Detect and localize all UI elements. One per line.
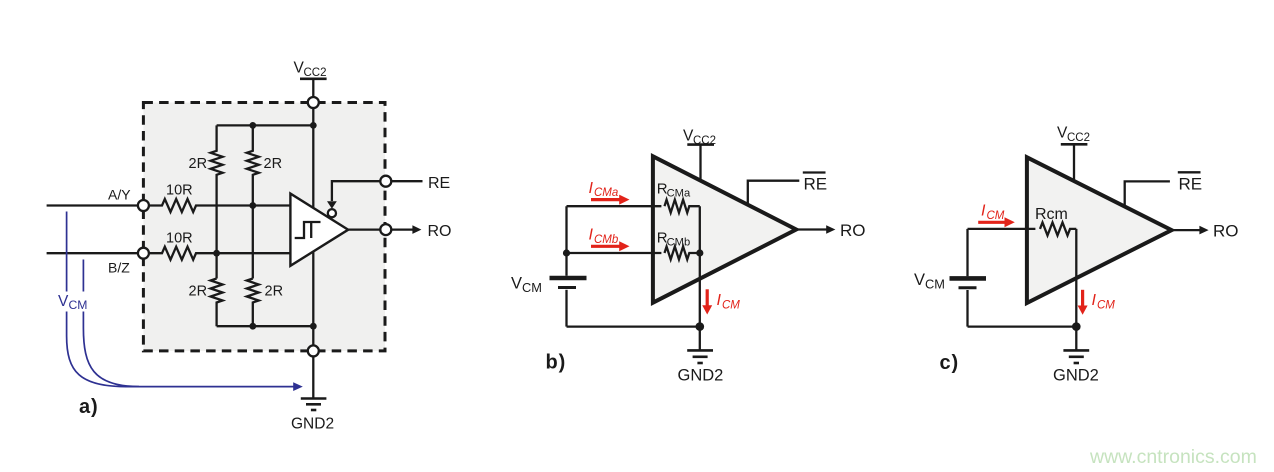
current arrow ICM down (c) <box>1081 290 1084 306</box>
label VCM (b) <box>511 275 542 296</box>
junction dot bottom rail / supply line (a) <box>310 323 317 330</box>
svg-text:CM: CM <box>69 298 88 312</box>
junction dot left divider / B-Z wire (a) <box>213 250 220 257</box>
svg-text:2R: 2R <box>189 156 208 172</box>
svg-text:V: V <box>511 275 522 293</box>
resistor RCMa (b) <box>665 200 700 213</box>
svg-text:CMa: CMa <box>594 187 618 199</box>
label ICM input (c) <box>981 203 1005 223</box>
svg-text:RO: RO <box>1213 221 1239 240</box>
wire common vertical inside comparator (c) <box>1075 229 1077 327</box>
white backing for VCM label (a) <box>56 292 96 312</box>
svg-text:Rcm: Rcm <box>1035 206 1068 223</box>
wire RE stub right of pin (a) <box>391 180 422 182</box>
VCC2 supply bar (b) <box>687 143 714 146</box>
svg-text:V: V <box>914 271 925 289</box>
junction dot left vertical / lower input (b) <box>563 249 570 256</box>
svg-text:A/Y: A/Y <box>108 187 131 203</box>
svg-text:10R: 10R <box>166 231 193 247</box>
pin circle VCC2 on box (a) <box>308 97 319 108</box>
current arrow ICMa (b) <box>591 198 620 201</box>
wire battery to bottom rail (b) <box>565 290 567 327</box>
svg-text:GND2: GND2 <box>291 416 334 433</box>
junction dot top rail / right divider (a) <box>249 122 256 129</box>
label ICMa (b) <box>589 180 619 199</box>
svg-text:CMb: CMb <box>594 234 619 246</box>
dashed IC boundary box (a) <box>143 103 385 351</box>
battery VCM plate long (b) <box>550 276 587 281</box>
resistor 2R lower-left (a) <box>211 279 223 327</box>
wire common vertical inside comparator (b) <box>699 206 701 326</box>
junction dot bottom rail / right divider (a) <box>249 323 256 330</box>
wire top rail (a) <box>217 124 314 126</box>
pin circle RO (a) <box>380 224 391 235</box>
wire RE from pin to enable arrow (a) <box>332 181 381 201</box>
hysteresis symbol inside comparator (a) <box>295 222 321 238</box>
wire RO with arrow (b) <box>796 228 826 230</box>
current arrow ICM down (b) <box>706 289 709 305</box>
VCM blue sense wire from B/Z (a) <box>83 260 139 387</box>
svg-text:RE: RE <box>1179 175 1203 194</box>
blue arrowhead to GND2 node (a) <box>293 382 303 391</box>
wire RO with arrow (a) <box>391 228 413 230</box>
battery VCM plate short (b) <box>558 286 576 289</box>
svg-text:B/Z: B/Z <box>108 260 130 276</box>
wire input A/Y (a) <box>47 204 138 206</box>
VCC2 supply bar (a) <box>300 78 327 81</box>
label VCC2 (c) <box>1057 125 1090 145</box>
svg-text:RE: RE <box>804 175 828 194</box>
wire input (c) <box>968 228 1036 230</box>
wire to ground (b) <box>699 327 701 351</box>
svg-text:CC2: CC2 <box>1067 132 1090 144</box>
svg-text:CMb: CMb <box>667 237 691 249</box>
wire RE to triangle (c) <box>1125 181 1170 206</box>
wire supply vertical VCC2-to-GND2 behind comparator (a) <box>312 108 314 346</box>
label VCC2 (a) <box>294 60 327 80</box>
wire VCM left vertical (b) <box>565 206 567 276</box>
current arrow ICM input (c) <box>978 221 1005 224</box>
enable bubble on comparator (a) <box>328 209 336 217</box>
comparator U1 triangle (a) <box>290 194 348 266</box>
resistor 10R upper (a) <box>149 199 291 212</box>
wire upper input (b) <box>567 205 662 207</box>
label RCMa (b) <box>657 181 691 200</box>
ground symbol GND2 (b) <box>687 350 713 363</box>
pin circle GND2 on box (a) <box>308 345 319 356</box>
label VCM (c) <box>914 271 945 292</box>
pin circle RE (a) <box>380 176 391 187</box>
svg-text:10R: 10R <box>166 183 193 199</box>
svg-text:2R: 2R <box>264 156 283 172</box>
svg-text:GND2: GND2 <box>1053 367 1099 385</box>
resistor 2R upper-left (a) <box>211 125 223 278</box>
wire lower input (b) <box>567 252 662 254</box>
svg-text:2R: 2R <box>265 284 284 300</box>
svg-text:CC2: CC2 <box>304 67 327 79</box>
wire VCC2 bar to pin (a) <box>312 79 314 97</box>
label VCM blue (a) <box>58 293 87 312</box>
wire bottom rail (c) <box>968 325 1077 327</box>
svg-text:a): a) <box>79 396 99 418</box>
resistor 10R lower (a) <box>149 247 291 260</box>
VCC2 supply bar (c) <box>1061 143 1088 146</box>
svg-text:RE: RE <box>428 175 450 192</box>
battery VCM plate long (c) <box>950 276 987 281</box>
wire RO from apex to pin (a) <box>348 228 380 230</box>
svg-text:I: I <box>589 227 594 244</box>
junction dot right divider / A-Y wire (a) <box>249 202 256 209</box>
svg-text:CM: CM <box>925 277 945 292</box>
svg-text:2R: 2R <box>189 284 208 300</box>
svg-text:I: I <box>1092 292 1097 309</box>
svg-text:CM: CM <box>1097 300 1115 312</box>
svg-text:I: I <box>981 203 986 220</box>
wire GND2 pin to ground (a) <box>312 356 314 398</box>
svg-text:RO: RO <box>840 221 866 240</box>
comparator triangle (b) <box>653 156 796 302</box>
current arrow ICMb (b) <box>591 245 620 248</box>
arrowhead enable (a) <box>327 201 337 209</box>
label ICM (b) <box>717 292 741 312</box>
pin circle A/Y (a) <box>138 200 149 211</box>
svg-text:CMa: CMa <box>667 188 691 200</box>
label ICM down (c) <box>1092 292 1116 312</box>
wire RO with arrow (c) <box>1172 229 1200 231</box>
label RCMb (b) <box>657 229 690 248</box>
svg-text:b): b) <box>546 352 567 374</box>
battery VCM plate short (c) <box>959 286 977 289</box>
svg-text:I: I <box>717 292 722 309</box>
resistor 2R upper-right (a) <box>247 125 259 278</box>
wire VCC2 to triangle (c) <box>1073 144 1075 181</box>
junction dot RCMb / common (b) <box>696 249 703 256</box>
svg-text:CM: CM <box>987 210 1005 222</box>
wire to ground (c) <box>1075 327 1077 351</box>
svg-text:RO: RO <box>428 223 452 240</box>
svg-text:www.cntronics.com: www.cntronics.com <box>1089 446 1257 468</box>
svg-text:CM: CM <box>522 280 542 295</box>
junction dot top rail / supply line (a) <box>310 122 317 129</box>
wire bottom rail (b) <box>567 325 700 327</box>
wire battery to bottom rail (c) <box>966 290 968 327</box>
svg-text:CM: CM <box>722 300 740 312</box>
ground symbol GND2 (a) <box>301 399 327 411</box>
resistor 2R lower-right (a) <box>247 279 259 327</box>
svg-text:GND2: GND2 <box>678 367 724 385</box>
svg-text:I: I <box>589 180 594 197</box>
svg-text:c): c) <box>940 352 960 374</box>
svg-text:V: V <box>58 293 69 310</box>
wire input B/Z (a) <box>47 252 138 254</box>
arrowhead RO (a) <box>412 225 421 234</box>
VCM blue sense wire from A/Y (a) <box>67 212 294 387</box>
junction dot bottom rail / ground (b) <box>696 322 705 331</box>
ground symbol GND2 (c) <box>1063 350 1089 363</box>
comparator triangle (c) <box>1027 157 1172 303</box>
resistor RCMb (b) <box>665 247 700 260</box>
resistor Rcm (c) <box>1040 222 1076 235</box>
junction dot bottom rail / ground (c) <box>1072 322 1081 331</box>
wire bottom rail (a) <box>217 325 314 327</box>
pin circle B/Z (a) <box>138 248 149 259</box>
label ICMb (b) <box>589 227 619 246</box>
label VCC2 (b) <box>683 128 716 148</box>
wire VCC2 to triangle (b) <box>699 145 701 181</box>
wire RE to triangle (b) <box>748 181 800 205</box>
wire VCM left vertical (c) <box>966 229 968 276</box>
